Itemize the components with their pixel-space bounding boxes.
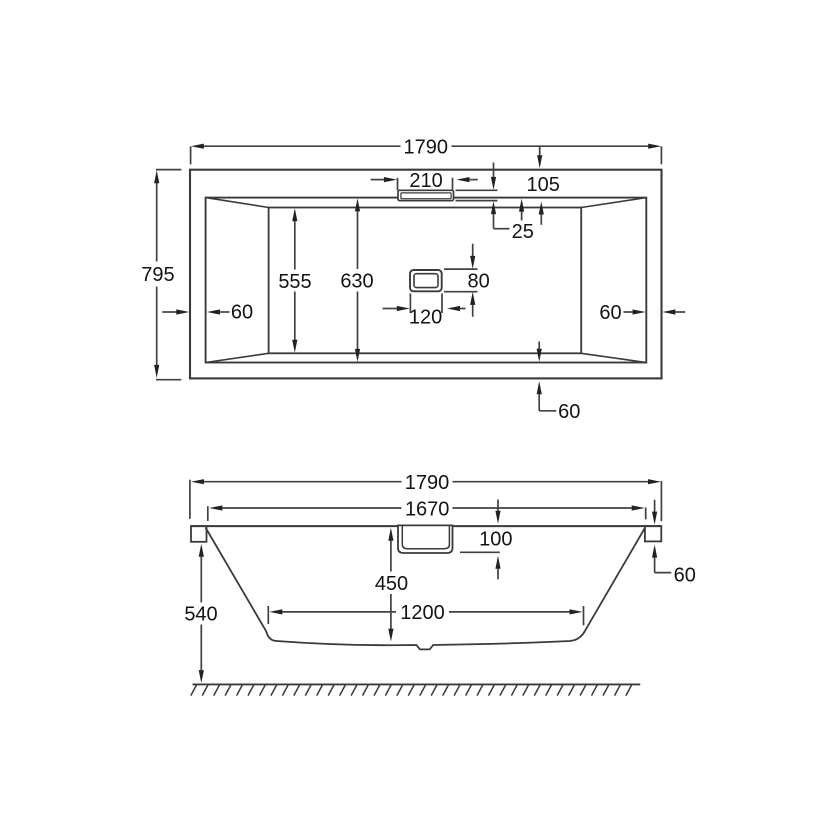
dimension 25 (overflow offset) with leader [456,163,534,243]
dimension 555 (floor width) [278,208,311,353]
side view: waste box below rim [398,525,453,553]
svg-text:105: 105 [527,174,560,196]
svg-text:630: 630 [340,271,373,293]
dimension 540 (overall height) [184,544,217,683]
ground line [193,683,641,685]
plan view: wall slope corner diagonals [206,198,647,363]
svg-text:60: 60 [558,401,580,423]
dimension 80 (drain height) [444,244,490,317]
plan view: overflow slot at top centre [398,190,454,200]
side view: tub body profile [206,528,646,650]
svg-text:540: 540 [184,604,217,626]
svg-text:555: 555 [278,271,311,293]
svg-text:100: 100 [479,529,512,551]
plan view: waste drain at centre [410,270,442,291]
plan view: bath inner rim rectangle [206,198,647,363]
dimension 630 (inner rim width) [340,198,373,362]
dimension 60 (plan bottom rim width) with leader [537,342,581,424]
svg-text:80: 80 [467,271,489,293]
dimension 795 (plan left height) [141,170,181,380]
ground hatching [191,685,632,696]
svg-text:60: 60 [674,565,696,587]
dimension 1670 (side inner length) [208,498,646,521]
dimension 1790 (side overall length) [190,472,662,521]
svg-text:795: 795 [141,264,174,286]
dimension 1790 (plan top width) [191,137,662,165]
dimension 100 (waste depth) [460,500,512,580]
dimension 120 (drain width) [383,294,466,329]
side view: rim top line [191,525,661,527]
dimension 60 (plan right rim width) [599,302,685,324]
dimension 210 (overflow width) [371,170,478,192]
dimension 60 (plan left rim width) [162,302,253,324]
svg-text:1670: 1670 [405,498,450,520]
svg-text:60: 60 [231,302,253,324]
svg-text:450: 450 [375,573,408,595]
svg-text:1200: 1200 [400,602,445,624]
svg-text:1790: 1790 [404,137,449,159]
dimension 105 label and arrows [527,147,560,225]
side view: left rim tab [191,526,207,542]
plan view: tub floor rectangle [269,208,582,354]
dimension 60 (side rim drop) with leader [652,500,696,587]
svg-text:25: 25 [512,221,534,243]
svg-text:1790: 1790 [405,472,450,494]
dimension 1200 (floor length) [268,602,583,625]
svg-text:60: 60 [599,302,621,324]
side view: right rim tab [645,526,661,541]
plan view: bath outer rim rectangle [190,170,662,379]
svg-text:120: 120 [409,307,442,329]
dimension 450 (inner depth) [375,528,408,642]
svg-text:210: 210 [409,170,442,192]
